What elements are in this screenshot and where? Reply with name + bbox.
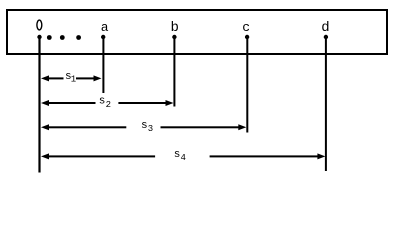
svg-text:s: s <box>141 120 148 132</box>
svg-text:2: 2 <box>106 100 111 110</box>
arrow s1 right head <box>94 75 102 81</box>
arrow s2 left segment <box>48 102 96 104</box>
point a <box>101 35 105 39</box>
arrow s1 right segment <box>76 77 95 79</box>
svg-text:d: d <box>321 20 329 36</box>
svg-text:4: 4 <box>181 153 186 163</box>
arrow s4 right head <box>317 153 325 159</box>
arrow s1 left segment <box>48 77 64 79</box>
point b <box>172 35 176 39</box>
ellipsis dot 3 <box>76 35 81 40</box>
outer box <box>7 10 387 54</box>
svg-text:s: s <box>99 96 106 108</box>
arrow s2 right segment <box>118 102 166 104</box>
svg-text:3: 3 <box>148 124 153 134</box>
arrow s3 left head <box>41 124 49 130</box>
arrow s3 left segment <box>48 126 126 128</box>
svg-text:b: b <box>170 20 178 36</box>
arrow s4 left segment <box>48 155 155 157</box>
ellipsis dot 1 <box>47 35 52 40</box>
point 0 <box>37 35 41 39</box>
arrow s4 right segment <box>210 155 319 157</box>
point d <box>324 35 328 39</box>
wire: vertical line from point a <box>102 35 104 93</box>
svg-text:c: c <box>242 20 250 35</box>
wire: vertical line from point 0 <box>38 35 40 173</box>
wire: vertical line from point c <box>246 35 248 133</box>
arrow s4 left head <box>41 153 49 159</box>
arrow s2 left head <box>41 100 49 106</box>
wire: vertical line from point b <box>173 35 175 107</box>
ellipsis dot 2 <box>60 35 65 40</box>
svg-text:1: 1 <box>71 74 76 84</box>
arrow s3 right segment <box>161 126 240 128</box>
arrow s2 right head <box>166 100 174 106</box>
wire: vertical line from point d <box>325 35 327 171</box>
label 0 (plain oval zero) <box>37 20 42 30</box>
arrow s1 left head <box>41 75 49 81</box>
arrow s3 right head <box>238 124 246 130</box>
svg-text:a: a <box>101 20 109 35</box>
svg-text:s: s <box>174 149 181 161</box>
point c <box>245 35 249 39</box>
